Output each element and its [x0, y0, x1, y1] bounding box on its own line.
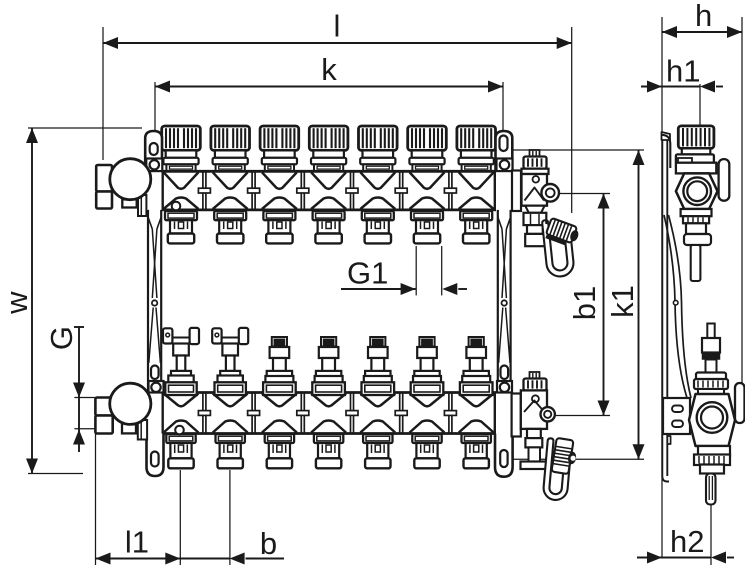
svg-text:b: b — [260, 526, 277, 561]
svg-text:b1: b1 — [567, 286, 602, 320]
svg-text:G1: G1 — [347, 255, 388, 290]
svg-text:G: G — [44, 326, 79, 350]
svg-text:k: k — [321, 52, 337, 87]
svg-text:h: h — [695, 0, 712, 33]
svg-text:w: w — [0, 291, 34, 315]
svg-text:h2: h2 — [670, 524, 704, 559]
svg-text:h1: h1 — [666, 53, 700, 88]
svg-text:k1: k1 — [605, 285, 640, 318]
svg-text:l1: l1 — [125, 525, 149, 560]
svg-text:l: l — [334, 9, 341, 44]
